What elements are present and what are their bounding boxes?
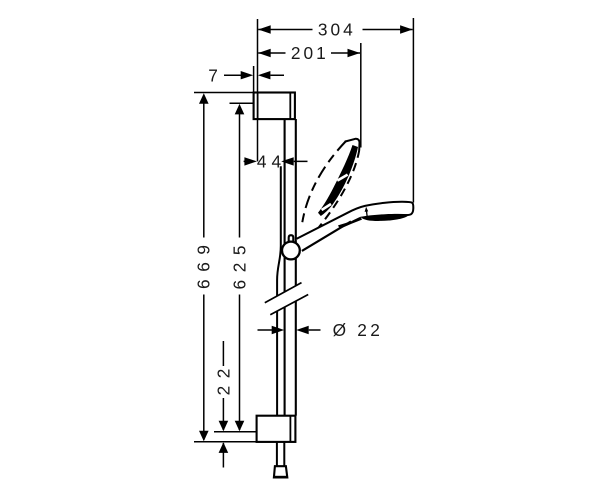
- arrowhead 22 bottom-pointing-down: [219, 421, 229, 432]
- arrowhead diameter22 left: [272, 326, 285, 334]
- arrowhead 304 right: [400, 25, 413, 33]
- wire: 625 bottom reference line: [214, 431, 257, 433]
- dashed head spray face dark band: [318, 145, 358, 216]
- arrowhead 625 bottom: [235, 421, 245, 432]
- wire: wall extension line: [257, 19, 259, 161]
- arrowhead 7 right: [258, 71, 271, 79]
- dashed hand shower (docked position): [302, 139, 360, 242]
- svg-text:625: 625: [229, 238, 249, 290]
- svg-text:201: 201: [291, 43, 329, 63]
- wire: dashed head right edge: [307, 151, 359, 242]
- svg-text:22: 22: [213, 361, 233, 395]
- white pinch 2 on spray band: [322, 204, 331, 210]
- wire: dashed head left edge: [302, 141, 346, 224]
- break line upper: [265, 283, 302, 303]
- svg-text:669: 669: [194, 237, 214, 289]
- arrowhead 669 bottom: [199, 431, 209, 442]
- small indicator arrow on head: [366, 211, 369, 217]
- top wall bracket: [254, 93, 295, 120]
- bottom bracket inner right line: [289, 416, 291, 442]
- hose end cone: [274, 466, 287, 477]
- wire: dim diameter 22 line: [258, 329, 321, 331]
- arrowhead 669 top: [199, 93, 209, 104]
- hose lower run: [277, 442, 284, 466]
- svg-text:Ø22: Ø22: [333, 320, 384, 340]
- hand shower body white fill: [296, 202, 413, 254]
- wire: dim 22 vertical line: [222, 341, 224, 468]
- wire: 625 top reference line: [230, 102, 254, 104]
- rail right edge: [295, 119, 297, 416]
- hose upper run: [277, 166, 281, 415]
- holder knob tab: [289, 235, 294, 244]
- top bracket inner left line: [257, 93, 259, 120]
- bottom wall bracket: [257, 416, 296, 442]
- svg-text:7: 7: [208, 66, 218, 86]
- wire: dim 44 line: [244, 160, 308, 162]
- arrowhead 44 left: [244, 157, 257, 165]
- white pinch 1 on spray band: [337, 175, 347, 181]
- wire: 304 extension line: [412, 18, 414, 203]
- wire: dim 304 line: [258, 29, 412, 31]
- wire: 669 top reference line: [194, 92, 254, 94]
- arrowhead 7 left: [241, 71, 254, 79]
- svg-text:44: 44: [257, 152, 286, 172]
- rail and hose: [277, 119, 296, 416]
- break band (pipe break): [265, 283, 308, 315]
- dashed head top cap: [345, 139, 360, 151]
- arrowhead 304 left: [258, 25, 271, 33]
- wire: dim 625 vertical line: [239, 106, 241, 430]
- arrowhead 22 pointing-up: [219, 442, 229, 453]
- texts: [194, 20, 384, 396]
- svg-text:304: 304: [318, 20, 356, 40]
- hand shower handle bottom edge: [302, 221, 351, 251]
- arrowhead 625 top: [235, 104, 245, 115]
- hand shower top and cap outline: [296, 202, 413, 239]
- arrowhead diameter22 right: [296, 326, 309, 334]
- handle-head junction dark wedge: [338, 217, 362, 229]
- wire: dim 201 line: [258, 52, 360, 54]
- arrowhead 201 right: [348, 49, 361, 57]
- wire: 201 extension line: [360, 43, 362, 148]
- holder slider circle: [282, 242, 300, 260]
- rail left edge: [284, 119, 286, 416]
- arrowhead 201 left: [258, 49, 271, 57]
- top bracket inner right line: [289, 93, 291, 120]
- wire: 669 bottom reference line: [194, 441, 257, 443]
- break line lower: [270, 295, 308, 315]
- wire: dim 669 vertical line: [203, 95, 205, 440]
- wire: dim 7 line: [224, 74, 284, 76]
- spray face crescent: [361, 214, 410, 221]
- hose cone thick bottom edge: [274, 476, 287, 478]
- solid hand shower: [296, 202, 413, 254]
- arrowhead 44 right: [281, 157, 294, 165]
- wire: 7-dim left extension line: [253, 66, 255, 93]
